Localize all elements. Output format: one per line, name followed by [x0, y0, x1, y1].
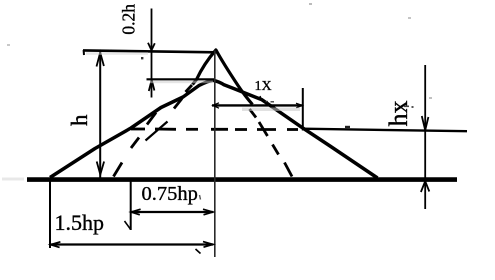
- svg-text:1.5hp: 1.5hp: [55, 210, 105, 235]
- dimension 1x line: [212, 104, 303, 106]
- hydrograph solid curve (rising limb, peak, falling limb): [50, 80, 378, 178]
- horizontal dashed level line hx inside triangle: [131, 128, 298, 131]
- inner triangle left dashed side: [114, 85, 193, 177]
- 1.5hp left arrow: [51, 242, 61, 248]
- grey smudge under top line: [86, 52, 148, 55]
- baseline (time axis): [27, 177, 457, 182]
- svg-text:hx: hx: [384, 101, 413, 127]
- hx level solid line: [302, 129, 467, 132]
- inner triangle apex solid sides: [193, 50, 253, 105]
- dimension 0.2h up arrow: [149, 80, 155, 91]
- svg-text:0.2h: 0.2h: [119, 4, 139, 35]
- stray dot near 0.2h line: [141, 57, 143, 59]
- svg-text:0.75hp: 0.75hp: [142, 183, 198, 205]
- small bump on hx line: [345, 126, 350, 128]
- stray tick below 1.5hp right arrow: [196, 249, 201, 254]
- peak axis vertical line: [214, 51, 216, 258]
- 1.5hp right arrow: [203, 242, 213, 248]
- dimension 1.5hp line: [50, 243, 213, 245]
- svg-text:h: h: [67, 114, 92, 126]
- svg-text:1X: 1X: [255, 79, 272, 94]
- 0.75hp left arrow: [131, 209, 140, 215]
- dimension h vertical line: [99, 52, 101, 178]
- small marks above 1x dimension line: [260, 96, 262, 101]
- faint speckles: [309, 3, 312, 5]
- level line 0.2h below peak: [147, 78, 215, 80]
- middle extension vertical for 0.75hp: [130, 181, 132, 230]
- tick at bottom of middle extension: [125, 221, 131, 230]
- 1x end vertical line: [302, 88, 304, 131]
- 1x right small arrow: [296, 103, 302, 108]
- top line start hook: [83, 50, 85, 55]
- dimension h down arrow: [97, 162, 104, 175]
- dimension 0.2h down arrow: [148, 43, 155, 51]
- inner triangle right dashed side: [250, 109, 293, 177]
- 1x left small arrow: [213, 103, 219, 108]
- grey smudge under 0.2h level line: [150, 81, 213, 84]
- small dash and dot near hx text: [404, 105, 409, 107]
- dimension h up arrow: [97, 53, 104, 67]
- dimension 0.2h vertical line: [151, 9, 153, 98]
- grey smudge under 1x line: [242, 108, 300, 112]
- small mark after 0.75hp: [200, 195, 201, 200]
- 0.75hp right arrow: [203, 209, 213, 215]
- left extension vertical at curve start: [49, 181, 51, 248]
- dimension hx vertical line: [424, 65, 426, 209]
- hx up arrow: [421, 181, 429, 192]
- hx down arrow: [422, 116, 429, 130]
- top peak level line: [83, 50, 216, 52]
- grey smudge left of baseline start: [2, 178, 24, 181]
- dimension 0.75hp line: [131, 211, 214, 213]
- slash tick at left crossing of dashed lines: [146, 122, 168, 141]
